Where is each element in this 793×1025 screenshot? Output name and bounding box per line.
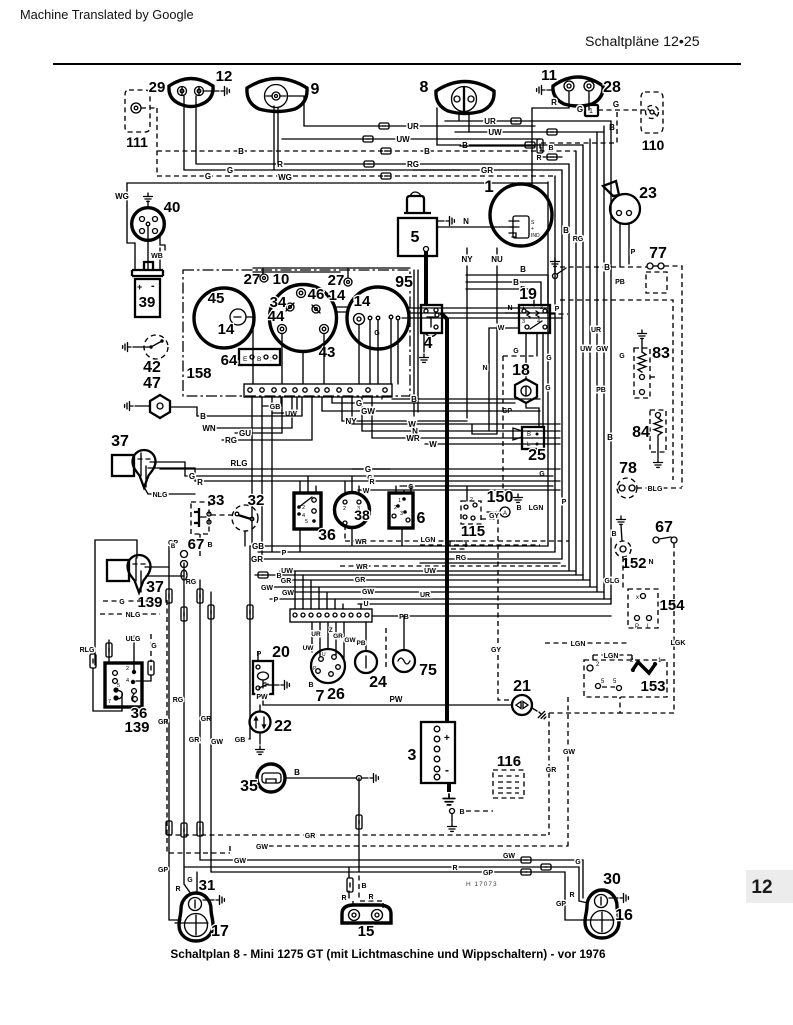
svg-text:+: +: [444, 733, 450, 744]
wiper motor 37/139: [107, 560, 129, 581]
svg-text:95: 95: [395, 274, 413, 291]
switch 24: [355, 651, 377, 673]
wire GB down: [249, 546, 250, 739]
svg-text:B: B: [604, 263, 610, 272]
battery earth: [447, 783, 451, 792]
svg-text:N: N: [463, 217, 469, 226]
switch 75: [393, 650, 415, 672]
svg-text:154: 154: [659, 597, 685, 614]
dashed GR rail bottom: [167, 834, 549, 836]
svg-text:A: A: [503, 511, 507, 517]
svg-text:Schaltplan 8 - Mini 1275 GT (m: Schaltplan 8 - Mini 1275 GT (mit Lichtma…: [170, 947, 606, 961]
svg-text:GY: GY: [491, 647, 501, 654]
wire UW jog: [272, 397, 297, 413]
wire W: [352, 423, 560, 425]
wire B from 35: [285, 777, 356, 779]
svg-text:75: 75: [419, 662, 437, 679]
svg-text:UW: UW: [488, 128, 502, 137]
svg-text:115: 115: [461, 523, 485, 540]
svg-text:GW: GW: [596, 346, 608, 353]
svg-text:Schaltpläne 12•25: Schaltpläne 12•25: [585, 34, 700, 50]
rail GW: [210, 592, 212, 872]
wire LGN dashed mid: [420, 544, 540, 546]
svg-text:14: 14: [329, 287, 346, 304]
wire P 599: [270, 598, 611, 600]
svg-text:7: 7: [108, 699, 111, 705]
svg-text:1: 1: [398, 498, 401, 504]
indicator switch 7/26: [311, 649, 345, 683]
dashed GW vertical: [567, 697, 569, 848]
svg-text:WG: WG: [115, 192, 129, 201]
earth lead o-B: [450, 809, 455, 814]
svg-text:37: 37: [111, 433, 129, 450]
svg-text:GR: GR: [333, 633, 343, 640]
svg-text:RG: RG: [456, 555, 467, 562]
flasher relay 25: [522, 427, 544, 449]
svg-text:4: 4: [424, 335, 433, 352]
switch bottom leads: [351, 528, 353, 546]
ground node right of control box: [553, 274, 558, 279]
instrument housing 158: [183, 270, 410, 396]
wire WR: [372, 437, 560, 439]
wire GR top: [413, 169, 460, 171]
svg-text:B: B: [361, 883, 366, 890]
wire G 486: [400, 485, 553, 487]
svg-text:G: G: [545, 385, 551, 392]
headlamp 8: [436, 82, 494, 114]
svg-text:R: R: [551, 98, 557, 107]
svg-text:UR: UR: [591, 327, 601, 334]
wire to 154: [622, 557, 624, 589]
svg-text:44: 44: [268, 308, 285, 325]
dashed vertical right 682: [664, 266, 682, 487]
svg-text:2: 2: [343, 506, 346, 512]
svg-text:NU: NU: [491, 255, 503, 264]
relay 153: [584, 660, 667, 697]
svg-text:GW: GW: [362, 589, 374, 596]
wire RG mid: [222, 439, 312, 441]
svg-text:B: B: [238, 147, 244, 156]
wire G long: [352, 468, 560, 470]
right housing verticals: [413, 270, 415, 416]
svg-text:GW: GW: [234, 858, 246, 865]
svg-text:UR: UR: [311, 631, 321, 638]
svg-text:GR: GR: [355, 577, 366, 584]
dashed GR vertical: [549, 713, 620, 835]
svg-text:NLG: NLG: [153, 492, 168, 499]
wire UR left: [288, 96, 304, 126]
wire R 481: [195, 480, 560, 482]
wire GR 559: [250, 558, 562, 560]
lamp8 leads: [458, 114, 460, 121]
svg-text:B: B: [200, 412, 206, 421]
svg-text:GP: GP: [158, 867, 168, 874]
svg-text:G: G: [205, 172, 211, 181]
wire R: [197, 163, 569, 165]
cluster top feed lines: [253, 268, 410, 272]
wire GP bottom: [211, 872, 582, 920]
wire G 476: [185, 475, 553, 477]
corner jumper R: [537, 156, 562, 158]
lamp 152: [615, 541, 631, 557]
tachometer 95: [347, 287, 409, 349]
svg-text:35: 35: [240, 778, 258, 795]
headlamp 9: [247, 79, 307, 112]
svg-text:2: 2: [470, 497, 473, 503]
svg-text:8: 8: [420, 79, 429, 96]
svg-text:9: 9: [311, 81, 320, 98]
rail GR: [199, 580, 201, 860]
svg-text:WR: WR: [406, 434, 420, 443]
svg-text:B: B: [563, 226, 569, 235]
ignition switch 42: [144, 335, 168, 359]
svg-text:G: G: [374, 330, 380, 337]
wire B mid: [392, 398, 540, 400]
switch 6: [389, 493, 413, 528]
wire WN: [203, 427, 292, 429]
svg-text:39: 39: [139, 294, 156, 311]
wire GB: [250, 545, 548, 547]
svg-text:RLG: RLG: [231, 459, 248, 468]
svg-text:LGN: LGN: [604, 653, 619, 660]
svg-text:GLG: GLG: [604, 578, 620, 585]
page number tab: [746, 870, 793, 903]
wire B dashed: [157, 150, 576, 152]
wire G right: [332, 402, 515, 404]
svg-text:43: 43: [319, 344, 336, 361]
voltage stabiliser 64: [239, 349, 280, 365]
svg-text:NY: NY: [461, 255, 473, 264]
svg-text:P: P: [274, 597, 279, 604]
wire GB jog: [262, 397, 281, 406]
svg-text:x: x: [636, 595, 639, 601]
wire GW bottom: [200, 860, 583, 898]
svg-text:ULG: ULG: [126, 636, 141, 643]
svg-text:G: G: [546, 355, 552, 362]
svg-text:G: G: [151, 643, 157, 650]
svg-text:RLG: RLG: [80, 647, 95, 654]
wire NU vertical: [496, 248, 498, 434]
svg-text:B: B: [207, 542, 212, 549]
svg-text:18: 18: [512, 362, 530, 379]
svg-text:R: R: [341, 895, 346, 902]
ignition coil 39: [144, 262, 153, 269]
svg-text:Machine Translated by Google: Machine Translated by Google: [20, 7, 194, 22]
wires B from control box to 19: [466, 275, 548, 306]
wire GR 580: [280, 579, 590, 581]
svg-text:1: 1: [484, 177, 493, 196]
switch 67 right: [617, 516, 626, 524]
connector strip: [244, 384, 392, 397]
svg-text:R: R: [369, 479, 374, 486]
right-side wire bundle verticals: [610, 121, 612, 604]
wire W 490: [358, 489, 560, 491]
svg-text:W: W: [498, 325, 505, 332]
parking lamp 110: [641, 92, 663, 133]
comp111 dashed lead: [156, 108, 158, 176]
svg-text:B: B: [294, 768, 300, 777]
cluster to right bundle lines: [402, 308, 562, 318]
svg-text:IND: IND: [531, 233, 540, 239]
svg-text:17: 17: [211, 923, 229, 940]
svg-text:10: 10: [273, 271, 290, 288]
lower connector strip: [290, 609, 372, 622]
dashed stub near 75: [385, 628, 387, 668]
svg-text:GB: GB: [235, 737, 246, 744]
svg-text:G: G: [119, 599, 125, 606]
svg-text:-: -: [151, 280, 155, 292]
wire WR dashed upper: [345, 540, 569, 542]
wire PB 616: [372, 615, 611, 617]
svg-text:47: 47: [143, 375, 161, 392]
svg-text:B: B: [607, 433, 613, 442]
svg-text:GR: GR: [481, 166, 493, 175]
wire W lower: [425, 443, 560, 445]
wire B 575: [255, 574, 583, 576]
svg-text:B: B: [609, 123, 615, 132]
svg-text:GW: GW: [344, 637, 356, 644]
svg-text:Z: Z: [329, 628, 333, 634]
svg-text:R: R: [569, 892, 574, 899]
dashed GW rail bottom: [260, 845, 568, 847]
svg-text:UR: UR: [420, 592, 430, 599]
gauge 45 (fuel): [194, 288, 254, 348]
wire UW 571: [280, 570, 576, 572]
svg-text:GR: GR: [546, 767, 557, 774]
svg-text:WB: WB: [151, 253, 163, 260]
svg-text:H 17073: H 17073: [466, 881, 498, 888]
horn 23: [610, 194, 640, 224]
svg-text:67: 67: [188, 536, 205, 553]
wire LGN dashed 2: [593, 655, 635, 663]
lighting switch 36: [294, 493, 321, 529]
svg-text:GW: GW: [503, 853, 515, 860]
svg-text:11: 11: [541, 67, 557, 84]
fuel pump 4: [421, 305, 442, 333]
svg-text:111: 111: [126, 134, 148, 150]
heavy battery cable: [424, 251, 428, 306]
wire N to 19: [505, 312, 519, 314]
svg-text:26: 26: [327, 686, 345, 703]
horn leads: [619, 224, 621, 267]
connector 115: [461, 501, 481, 524]
svg-text:G: G: [575, 859, 581, 866]
svg-text:3: 3: [400, 511, 403, 517]
svg-text:G: G: [577, 105, 583, 114]
svg-text:152: 152: [621, 555, 646, 572]
ground comp4: [423, 333, 425, 352]
wire B left: [197, 415, 302, 417]
svg-text:45: 45: [208, 290, 225, 307]
wire UW right: [455, 131, 604, 133]
lamp11 lead G + connector: [588, 92, 590, 110]
svg-text:B: B: [257, 356, 261, 363]
rail RG: [184, 563, 191, 894]
svg-text:21: 21: [513, 678, 531, 695]
switch top leads: [299, 481, 301, 492]
svg-text:20: 20: [272, 644, 290, 661]
fuse box 36/139: [105, 663, 142, 707]
svg-text:42: 42: [143, 359, 161, 376]
svg-text:3: 3: [522, 319, 525, 325]
svg-text:U: U: [363, 601, 368, 608]
svg-text::: :: [270, 356, 272, 363]
wire RG 563: [420, 562, 560, 564]
svg-text:153: 153: [640, 678, 665, 695]
wire G dashed: [157, 175, 555, 177]
svg-text:GW: GW: [211, 739, 223, 746]
lamp12 leads: [183, 96, 185, 170]
svg-text:P: P: [635, 624, 639, 630]
svg-text:40: 40: [164, 199, 181, 216]
switch 154: [628, 589, 658, 628]
svg-text:B: B: [308, 682, 313, 689]
svg-text:24: 24: [369, 674, 387, 691]
svg-text:P: P: [555, 306, 560, 313]
svg-text:19: 19: [519, 286, 537, 303]
svg-text:RG: RG: [573, 236, 584, 243]
svg-text:36: 36: [318, 527, 336, 544]
svg-text:UW: UW: [424, 568, 436, 575]
svg-text:U: U: [322, 652, 326, 658]
svg-text:UW: UW: [281, 568, 293, 575]
svg-text:4: 4: [537, 319, 540, 325]
svg-text:GP: GP: [483, 870, 493, 877]
front lamp 12: [169, 79, 213, 107]
svg-text:GR: GR: [251, 555, 263, 564]
svg-text:7: 7: [316, 688, 325, 705]
resistor 84: [650, 410, 666, 452]
svg-text:B: B: [424, 147, 430, 156]
svg-text:G: G: [619, 353, 625, 360]
svg-text:PB: PB: [596, 387, 606, 394]
strip2 top links: [294, 571, 296, 609]
wire P 552: [258, 551, 555, 553]
svg-text:B: B: [527, 432, 531, 438]
svg-text:LGK: LGK: [671, 640, 686, 647]
svg-text:150: 150: [487, 489, 514, 506]
svg-text:UW: UW: [285, 411, 297, 418]
dashed vertical right 673: [560, 300, 673, 480]
svg-text:G: G: [187, 877, 193, 884]
svg-text:158: 158: [186, 365, 211, 382]
svg-text:2: 2: [126, 666, 129, 672]
lamp11 lead R: [532, 92, 569, 184]
wire B dashed to 77: [560, 266, 647, 268]
leads 19 to 18 and 25: [525, 333, 527, 379]
svg-text:P: P: [282, 550, 287, 557]
svg-text:46: 46: [308, 286, 325, 303]
wire G dashed to 150: [503, 356, 537, 500]
wire GY dashed: [481, 519, 512, 700]
wire NY mid: [342, 420, 467, 422]
svg-text:WR: WR: [355, 539, 367, 546]
distributor body to coil: [127, 206, 165, 269]
wire W from 19: [489, 328, 519, 431]
wire WG: [127, 183, 548, 206]
wire UR right: [445, 120, 611, 122]
cigar lighter 35: [257, 764, 285, 792]
svg-text:14: 14: [218, 321, 235, 338]
svg-text:32: 32: [248, 492, 265, 509]
svg-text:B: B: [459, 809, 464, 816]
svg-text:B: B: [548, 145, 553, 152]
svg-text:PB: PB: [356, 640, 365, 647]
dashed LGK vertical: [620, 543, 674, 713]
svg-text:G: G: [613, 100, 619, 109]
strip fan verticals: [251, 397, 253, 546]
leads above fuse box: [133, 636, 135, 672]
svg-text:LGN: LGN: [421, 537, 436, 544]
sidelamp unit 111: [125, 90, 150, 132]
svg-text:2: 2: [302, 505, 305, 511]
svg-text:GW: GW: [256, 844, 268, 851]
dashed left box edge: [167, 600, 230, 853]
svg-text:GY: GY: [489, 513, 499, 520]
svg-text:GR: GR: [201, 716, 212, 723]
wire GU: [235, 432, 282, 434]
svg-text:83: 83: [652, 345, 670, 362]
svg-text:139: 139: [124, 719, 149, 736]
left loop wires: [95, 540, 137, 665]
svg-text:LGN: LGN: [529, 505, 544, 512]
connectors on GB/P rails: [247, 605, 253, 619]
ground solenoid: [437, 220, 444, 222]
svg-text:31: 31: [199, 877, 216, 894]
wire B upper right: [437, 144, 583, 146]
svg-text:RG: RG: [186, 579, 197, 586]
svg-text:R: R: [452, 865, 457, 872]
svg-text:GR: GR: [189, 737, 200, 744]
svg-text:GW: GW: [261, 585, 273, 592]
svg-text:R: R: [175, 886, 180, 893]
svg-text:33: 33: [208, 492, 225, 509]
svg-text:WR: WR: [356, 564, 368, 571]
svg-text:25: 25: [528, 447, 546, 464]
svg-text:GW: GW: [563, 749, 575, 756]
svg-text:B: B: [171, 544, 176, 550]
svg-text:G: G: [513, 348, 519, 355]
svg-text:67: 67: [655, 519, 673, 536]
svg-text:1: 1: [589, 108, 593, 115]
svg-text:G: G: [227, 166, 233, 175]
svg-text:14: 14: [354, 293, 371, 310]
svg-text:15: 15: [358, 923, 375, 940]
svg-text:+: +: [137, 282, 142, 292]
svg-text:PW: PW: [390, 695, 403, 704]
lead into 115: [466, 486, 468, 501]
svg-text:23: 23: [639, 185, 657, 202]
svg-text:12: 12: [751, 877, 772, 898]
lead 47 to B wire: [170, 407, 197, 416]
svg-text:W: W: [429, 440, 437, 449]
wire RLG: [160, 468, 390, 470]
wire G dashed to 110: [598, 109, 645, 111]
svg-text:P: P: [631, 249, 636, 256]
svg-text:R: R: [536, 155, 541, 162]
wire WR dashed: [340, 565, 569, 567]
svg-text:G: G: [539, 471, 545, 478]
wire GW 587: [262, 586, 597, 588]
inter-gauge links: [337, 307, 347, 312]
speedometer with lamps 34/44/46: [270, 285, 337, 352]
svg-text:E: E: [243, 356, 248, 363]
header rule: [53, 63, 741, 65]
lead 18 down: [526, 403, 539, 427]
gauge leads down to connector strip: [246, 317, 253, 384]
svg-text:110: 110: [642, 137, 665, 153]
ground lamp11: [547, 89, 553, 91]
